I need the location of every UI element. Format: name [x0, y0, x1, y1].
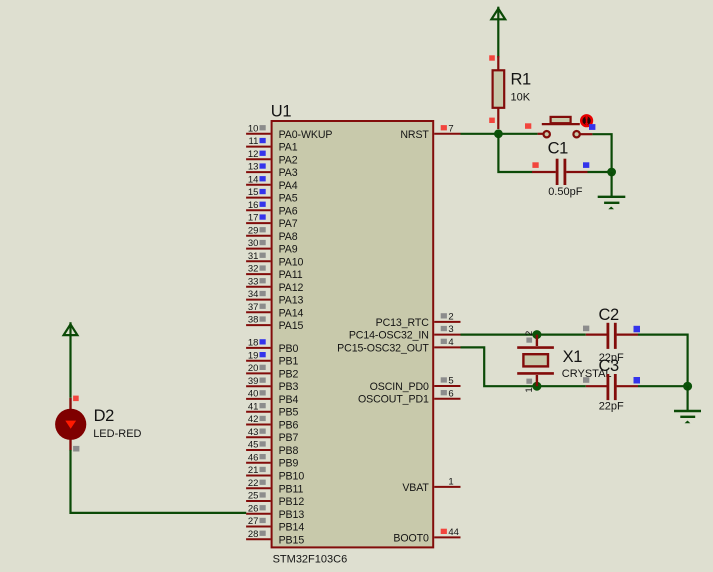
- node: junction crystal bottom / pin 4 rail: [532, 382, 541, 391]
- svg-text:LED-RED: LED-RED: [93, 428, 141, 440]
- power symbol (VCC arrow) above R1: [491, 7, 505, 58]
- red state square above R1: [489, 55, 495, 60]
- svg-text:15: 15: [248, 187, 259, 198]
- svg-text:PA15: PA15: [279, 320, 304, 332]
- svg-text:33: 33: [248, 276, 259, 287]
- svg-text:44: 44: [448, 527, 459, 538]
- svg-text:R1: R1: [511, 71, 532, 89]
- red state square above D2: [73, 396, 79, 402]
- svg-text:34: 34: [248, 289, 259, 300]
- pin 13 (PA3), left side: [246, 162, 298, 179]
- X1 reference label: [563, 348, 583, 366]
- svg-text:C2: C2: [599, 306, 620, 324]
- svg-text:2: 2: [524, 331, 535, 336]
- pin 34 (PA13), left side: [246, 289, 303, 306]
- pin 7 (NRST), right side: [400, 123, 460, 140]
- U1 reference label: [271, 103, 292, 121]
- svg-text:4: 4: [448, 337, 453, 348]
- red state square below R1: [489, 118, 495, 123]
- svg-text:17: 17: [248, 213, 259, 224]
- pin 11 (PA1), left side: [246, 136, 298, 153]
- svg-text:22: 22: [248, 478, 259, 489]
- U1 value label STM32F103C6: [273, 554, 348, 566]
- capacitor C1 0.50pF: [532, 159, 588, 185]
- svg-text:NRST: NRST: [400, 129, 429, 141]
- pin 25 (PB12), left side: [246, 491, 304, 508]
- svg-text:BOOT0: BOOT0: [393, 532, 429, 544]
- pin 43 (PB7), left side: [246, 427, 298, 444]
- C3 reference label: [599, 357, 620, 375]
- gray state square at crystal pin 2: [526, 338, 532, 343]
- wire: junction down to C1 left: [498, 134, 532, 172]
- svg-text:U1: U1: [271, 103, 292, 121]
- wire: button right terminal to right corner: [580, 133, 593, 135]
- pin 6 (OSCOUT_PD1), right side: [358, 388, 461, 405]
- blue state square right of button: [589, 124, 595, 130]
- D2 value label LED-RED: [93, 428, 141, 440]
- pin 4 (PC15-OSC32_OUT), right side: [337, 337, 460, 354]
- pin 44 (BOOT0), right side: [393, 527, 460, 544]
- svg-text:PA13: PA13: [279, 295, 304, 307]
- svg-text:10K: 10K: [511, 91, 531, 103]
- C1 reference label: [548, 140, 569, 158]
- svg-text:PA3: PA3: [279, 167, 298, 179]
- pin 2 (PC13_RTC), right side: [376, 312, 461, 329]
- svg-text:5: 5: [448, 376, 453, 387]
- pin 32 (PA11), left side: [246, 264, 303, 281]
- svg-text:6: 6: [448, 388, 453, 399]
- svg-text:PA2: PA2: [279, 154, 298, 166]
- svg-text:PC14-OSC32_IN: PC14-OSC32_IN: [349, 330, 429, 342]
- svg-text:11: 11: [249, 136, 259, 147]
- svg-text:45: 45: [248, 440, 259, 451]
- svg-text:31: 31: [248, 251, 259, 262]
- resistor R1 10K: [493, 56, 505, 129]
- power symbol (VCC arrow) above D2: [64, 322, 78, 398]
- svg-text:PB11: PB11: [279, 483, 304, 495]
- svg-text:7: 7: [448, 123, 453, 134]
- pin 46 (PB9), left side: [246, 452, 298, 469]
- pin 17 (PA7), left side: [246, 213, 298, 230]
- svg-text:1: 1: [524, 387, 535, 392]
- svg-text:38: 38: [248, 315, 259, 326]
- svg-text:21: 21: [248, 465, 259, 476]
- svg-text:OSCIN_PD0: OSCIN_PD0: [370, 381, 429, 393]
- svg-text:PB15: PB15: [279, 534, 305, 546]
- svg-text:27: 27: [248, 516, 259, 527]
- svg-text:3: 3: [448, 324, 453, 335]
- svg-text:10: 10: [248, 123, 259, 134]
- svg-text:20: 20: [248, 363, 259, 374]
- svg-text:PB3: PB3: [279, 381, 299, 393]
- wire: junction down to ground: [686, 386, 688, 410]
- svg-text:C1: C1: [548, 140, 569, 158]
- push-button left terminal: [544, 131, 550, 137]
- svg-text:46: 46: [248, 452, 259, 463]
- pin 38 (PA15), left side: [246, 315, 303, 332]
- pin 20 (PB2), left side: [246, 363, 298, 380]
- D2 reference label: [94, 407, 115, 425]
- svg-text:14: 14: [248, 174, 259, 185]
- gray state square left of C2: [583, 326, 589, 332]
- R1 value label 10K: [511, 91, 531, 103]
- svg-text:PA9: PA9: [279, 244, 298, 256]
- node: junction R1 / NRST: [494, 129, 503, 138]
- svg-text:X1: X1: [563, 348, 583, 366]
- C2 value label 22pF: [599, 352, 624, 364]
- gray state square left of C3: [583, 377, 589, 383]
- pin 27 (PB14), left side: [246, 516, 304, 533]
- R1 reference label: [511, 71, 532, 89]
- pin 40 (PB4), left side: [246, 389, 298, 406]
- svg-text:PC15-OSC32_OUT: PC15-OSC32_OUT: [337, 342, 429, 354]
- svg-text:18: 18: [248, 338, 259, 349]
- svg-text:PA8: PA8: [279, 231, 298, 243]
- svg-text:PB12: PB12: [279, 496, 305, 508]
- svg-text:PA10: PA10: [279, 256, 304, 268]
- svg-text:PA1: PA1: [279, 142, 298, 154]
- pin 16 (PA6), left side: [246, 200, 298, 217]
- svg-text:1: 1: [448, 477, 453, 488]
- C3 value label 22pF: [599, 401, 624, 413]
- svg-text:43: 43: [248, 427, 259, 438]
- svg-text:STM32F103C6: STM32F103C6: [273, 554, 348, 566]
- red state square left of button: [525, 123, 531, 129]
- svg-text:29: 29: [248, 225, 259, 236]
- svg-text:13: 13: [248, 162, 259, 173]
- pin 28 (PB15), left side: [246, 529, 304, 546]
- pin 30 (PA9), left side: [246, 238, 298, 255]
- pin 1 (VBAT), right side: [402, 477, 460, 494]
- red state square left of C1: [532, 162, 538, 168]
- svg-text:22pF: 22pF: [599, 401, 624, 413]
- wire: C1 right to ground corner: [588, 171, 612, 173]
- svg-text:30: 30: [248, 238, 259, 249]
- gray state square below D2: [73, 446, 79, 452]
- svg-text:PA11: PA11: [279, 269, 303, 281]
- C2 reference label: [599, 306, 620, 324]
- wire: junction down to ground: [610, 172, 612, 196]
- node: junction crystal top / pin 3 rail: [532, 330, 541, 339]
- pin 41 (PB5), left side: [246, 401, 298, 418]
- svg-text:PA4: PA4: [279, 180, 298, 192]
- X1 pin number 2 (rotated): [524, 331, 535, 336]
- capacitor C2 22pF: [586, 323, 638, 349]
- svg-text:PB8: PB8: [279, 445, 299, 457]
- svg-text:PB9: PB9: [279, 458, 299, 470]
- capacitor C3 22pF: [586, 374, 638, 400]
- svg-text:PA0-WKUP: PA0-WKUP: [279, 129, 333, 141]
- svg-text:12: 12: [248, 149, 259, 160]
- pin 39 (PB3), left side: [246, 376, 298, 393]
- svg-text:39: 39: [248, 376, 259, 387]
- svg-text:19: 19: [248, 350, 259, 361]
- blue state square right of C2: [634, 326, 641, 333]
- svg-text:PA14: PA14: [279, 307, 304, 319]
- pin 31 (PA10), left side: [246, 251, 303, 268]
- C1 value label 0.50pF: [548, 186, 583, 198]
- svg-text:16: 16: [248, 200, 259, 211]
- wire: PC14-OSC32_IN (pin 3) to crystal top rail: [461, 334, 586, 336]
- pin 18 (PB0), left side: [246, 338, 298, 355]
- svg-text:C3: C3: [599, 357, 620, 375]
- svg-text:40: 40: [248, 389, 259, 400]
- blue state square right of C3: [634, 377, 641, 384]
- pin 37 (PA14), left side: [246, 302, 303, 319]
- svg-text:PB1: PB1: [279, 356, 299, 368]
- svg-text:PB2: PB2: [279, 368, 299, 380]
- pin 33 (PA12), left side: [246, 276, 303, 293]
- node: junction right rail / C3 / ground: [683, 382, 692, 391]
- svg-text:PB13: PB13: [279, 509, 305, 521]
- svg-text:VBAT: VBAT: [402, 482, 429, 494]
- svg-text:PB7: PB7: [279, 432, 299, 444]
- svg-text:PB5: PB5: [279, 407, 299, 419]
- svg-text:PC13_RTC: PC13_RTC: [376, 317, 430, 329]
- pin 42 (PB6), left side: [246, 414, 298, 431]
- svg-text:PB10: PB10: [279, 471, 305, 483]
- svg-text:2: 2: [448, 312, 453, 323]
- crystal X1: [517, 335, 554, 387]
- svg-text:D2: D2: [94, 407, 115, 425]
- svg-text:PB6: PB6: [279, 420, 299, 432]
- svg-text:32: 32: [248, 264, 259, 275]
- svg-text:0.50pF: 0.50pF: [548, 186, 583, 198]
- svg-text:OSCOUT_PD1: OSCOUT_PD1: [358, 394, 429, 406]
- pin 19 (PB1), left side: [246, 350, 298, 367]
- pin 15 (PA5), left side: [246, 187, 298, 204]
- pin 22 (PB11), left side: [246, 478, 303, 495]
- svg-text:41: 41: [248, 401, 259, 412]
- wire: PC15-OSC32_OUT (pin 4) down and to crystal bottom rail: [461, 347, 586, 386]
- gray state square at crystal pin 1: [526, 379, 532, 384]
- push-button (reset switch) bar: [542, 117, 580, 124]
- pin 21 (PB10), left side: [246, 465, 304, 482]
- push-button actuator (red click target): [581, 115, 592, 126]
- pin 29 (PA8), left side: [246, 225, 298, 242]
- X1 pin number 1 (rotated): [524, 387, 535, 392]
- pin 5 (OSCIN_PD0), right side: [370, 376, 461, 393]
- svg-text:42: 42: [248, 414, 259, 425]
- svg-text:26: 26: [248, 503, 259, 514]
- wire: D2 cathode down and right to PB13 (pin 26): [71, 450, 247, 513]
- pin 45 (PB8), left side: [246, 440, 298, 457]
- svg-text:PB4: PB4: [279, 394, 299, 406]
- svg-text:PA7: PA7: [279, 218, 298, 230]
- wire: NRST pin 7 to junction and button: [461, 133, 538, 135]
- node: junction C1 / button / ground: [607, 168, 616, 177]
- ground symbol (oscillator net): [674, 411, 701, 423]
- svg-text:37: 37: [248, 302, 259, 313]
- LED D2 (LED-RED): [55, 398, 86, 451]
- push-button right terminal: [573, 131, 579, 137]
- svg-text:28: 28: [248, 529, 259, 540]
- pin 3 (PC14-OSC32_IN), right side: [349, 324, 461, 341]
- svg-text:PB14: PB14: [279, 522, 305, 534]
- wire: C3 right to junction: [638, 385, 688, 387]
- op-amp U1 body: STM32F103C6 microcontroller: [272, 121, 434, 547]
- blue state square right of C1: [583, 162, 589, 168]
- svg-text:PA6: PA6: [279, 205, 298, 217]
- svg-text:PA12: PA12: [279, 282, 304, 294]
- pin 12 (PA2), left side: [246, 149, 298, 166]
- pin 10 (PA0-WKUP), left side: [246, 123, 332, 140]
- wire: C2 right to right rail: [638, 335, 688, 387]
- ground symbol (C1/button net): [598, 197, 626, 210]
- svg-text:25: 25: [248, 491, 259, 502]
- svg-text:PA5: PA5: [279, 193, 298, 205]
- pin 14 (PA4), left side: [246, 174, 298, 191]
- svg-text:PB0: PB0: [279, 343, 299, 355]
- pin 26 (PB13), left side: [246, 503, 304, 520]
- X1 value label CRYSTAL: [562, 368, 612, 380]
- red stub into button left terminal: [538, 133, 543, 135]
